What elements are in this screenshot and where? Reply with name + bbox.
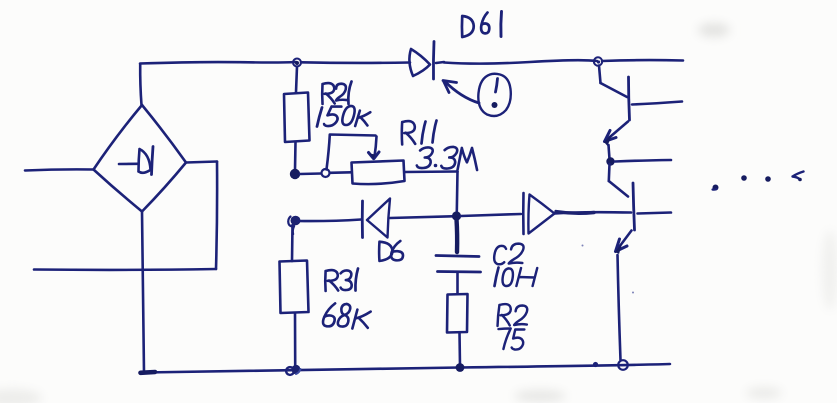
capacitor C2 lead bottom [456,273,459,295]
transistor Q1 collector wire right [632,102,682,105]
ink speck [632,292,634,294]
R11 wiper arrow [375,137,377,157]
node small dot on rail [593,362,598,367]
node junction C2 filled dot [452,211,461,220]
wire top rail to D61 [301,61,410,64]
resistor R31 lead top [291,225,294,261]
ellipsis dot 1 [713,185,719,191]
wire node down to Q2 [607,164,610,181]
label C2 [493,244,525,265]
wire dot to circle [300,172,321,175]
resistor R31 lead bottom [294,313,297,365]
label R21 [322,82,351,105]
label R11 value 3.3M [416,147,477,170]
label R11 [402,121,437,145]
bridge rectifier diamond [94,105,143,170]
node junction D6 row / R31 column [291,216,301,226]
label R31 [325,269,358,292]
label D61 [462,12,502,38]
resistor R2 lead bottom [458,333,461,367]
wire bottom rail [144,364,670,373]
transistor Q2 bar [633,183,635,230]
wire top rail right end [602,59,683,63]
label R2 [497,304,529,326]
wire Q2 emitter to bottom rail [618,255,621,360]
node junction top of Q1 [594,57,602,65]
wire circle to R11 [330,171,351,174]
diode D61 [409,49,430,76]
annotation arrow to D61 [445,82,479,104]
label R21 value 150K [317,106,371,127]
node bottom-left blob [141,370,156,375]
wire bridge right lead [186,162,217,163]
wire R11 wiper loop [327,135,376,170]
diode D5 breakover [522,193,525,234]
transistor Q1 emitter arrow [607,122,628,140]
bridge inner diode [119,163,138,166]
resistor R21 [284,93,310,143]
node junction R31 bottom scribble [286,367,294,375]
wire D6 to node [390,216,452,218]
node junction top of R21 [293,59,301,67]
transistor Q1 bar [629,77,630,120]
wire lower-left horizontal lead [34,268,216,271]
transistor Q2 base stub right [638,213,672,214]
label R31 value 68K [322,303,371,328]
wire top rail left segment [140,62,296,64]
ellipsis dot 2 [741,175,747,181]
wire left AC lead [25,169,94,170]
wire top rail D61 to Q1 [444,60,597,63]
capacitor C2 plates [436,256,479,257]
wire bridge bottom vertical [142,212,144,373]
wire node to diode D5 [461,214,521,216]
ellipsis end mark [793,172,804,180]
node junction R2 bottom dot [456,363,465,372]
wire node right [615,160,671,162]
ink speck [582,245,584,247]
ellipsis dot 3 [765,176,771,182]
diode D6 [361,201,364,238]
wire R11 down to node [455,172,458,213]
wire Q1 emitter to node [609,145,610,159]
node junction R21/R11 filled dot [290,169,300,179]
label C2 value 10H [495,268,538,287]
resistor R2 [447,294,468,333]
label R2 value 75 [497,329,525,350]
transistor Q1 base wire from top rail [599,66,601,84]
capacitor C2 lead top [454,219,459,252]
wire right side vertical [216,162,217,270]
resistor R31 [280,261,309,314]
annotation circle with exclamation [478,74,510,116]
potentiometer R11 body [352,161,405,185]
wire top-left vertical [140,64,141,105]
wire R11 right [405,170,458,173]
transistor Q2 emitter arrow [618,231,632,249]
node junction Q2 emitter circle [618,360,628,370]
wire junction to D6 [298,220,361,222]
resistor R21 lead top [296,67,297,93]
label D6 [379,241,403,261]
wire diode D5 to Q2 base [555,212,631,213]
resistor R21 lead bottom [294,142,297,170]
node junction Q1/Q2 filled dot [606,157,614,165]
node open circle junction [322,169,330,177]
